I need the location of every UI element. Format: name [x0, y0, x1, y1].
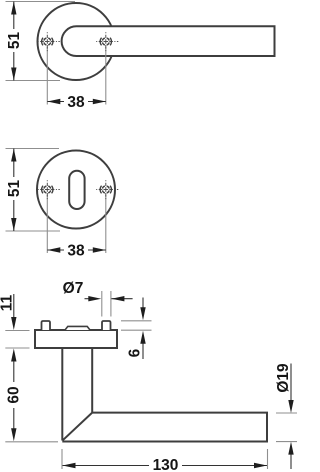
svg-text:Ø19: Ø19: [275, 363, 292, 393]
extension line top (51 dim): [6, 1, 76, 3]
screw right v2: [96, 180, 119, 199]
handle stem + grip (L shape side view): [62, 348, 267, 442]
svg-text:38: 38: [67, 94, 85, 111]
svg-text:130: 130: [153, 457, 179, 472]
lever handle (front view): [62, 26, 275, 56]
dimension 60: [5, 349, 58, 442]
dimension 38 (view2): [47, 243, 106, 260]
dimension 51 (view1): [6, 2, 23, 81]
extension line bottom (51 dim): [6, 80, 61, 82]
screw left: [37, 32, 60, 51]
extension line left screw (38 dim): [46, 47, 48, 105]
centre bump on plate: [65, 326, 90, 330]
svg-text:51: 51: [6, 32, 23, 50]
dimension 51 (view2): [6, 149, 23, 232]
screw post right: [102, 321, 111, 330]
dimension Ø7: [63, 280, 133, 317]
dimension 130: [62, 449, 268, 472]
svg-text:11: 11: [0, 294, 16, 311]
extension line bottom (51 dim v2): [6, 230, 61, 232]
escutcheon circle: [37, 151, 115, 229]
svg-text:Ø7: Ø7: [63, 280, 84, 297]
screw right: [96, 32, 119, 51]
screw post left: [42, 321, 51, 330]
extension line right screw (38 dim): [105, 47, 107, 105]
svg-text:60: 60: [6, 386, 23, 403]
screw left v2: [37, 180, 60, 199]
extension line left screw (38 dim v2): [46, 195, 48, 253]
keyhole slot: [69, 171, 84, 209]
svg-text:51: 51: [6, 180, 23, 198]
dimension 11: [0, 294, 30, 348]
rose circle: [38, 3, 115, 80]
dimension 6: [121, 298, 152, 360]
rose plate side view: [35, 330, 117, 348]
extension line right screw (38 dim v2): [105, 195, 107, 253]
extension line top (51 dim v2): [6, 148, 60, 150]
svg-text:6: 6: [127, 348, 144, 357]
dimension Ø19: [275, 363, 297, 469]
svg-text:38: 38: [67, 243, 85, 260]
dimension 38 (view1): [47, 94, 106, 111]
